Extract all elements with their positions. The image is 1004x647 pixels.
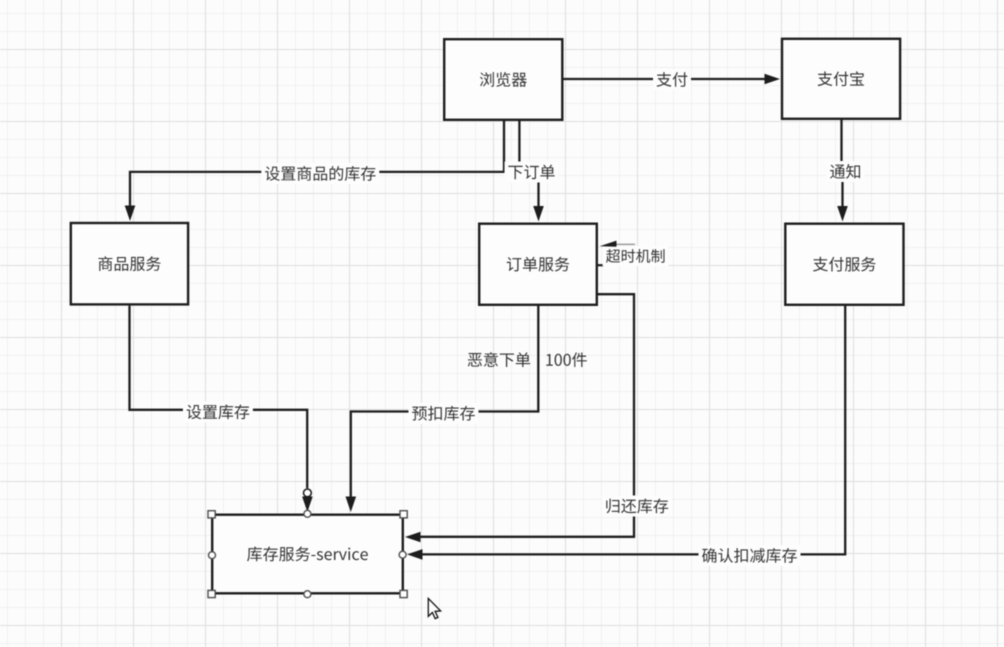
box 商品服务: [71, 223, 188, 304]
wire 下订单: 浏览器→订单服务: [505, 121, 559, 222]
box 支付服务: [785, 224, 903, 305]
wire 设置商品的库存: 浏览器→商品服务: [125, 121, 504, 221]
wire 支付: 浏览器→支付宝: [564, 69, 781, 90]
wire 超时机制 self-loop on 订单服务: [598, 241, 669, 266]
box 库存服务-service (selected): [212, 515, 403, 594]
mouse cursor: [428, 598, 440, 618]
wire 确认扣减库存: 支付服务→库存服务: [407, 306, 845, 566]
selection handles of 库存服务 box: [208, 510, 407, 597]
wire 设置库存: 商品服务→库存服务: [130, 306, 313, 512]
box 支付宝: [782, 39, 900, 119]
wire 归还库存: 订单服务→库存服务: [405, 294, 672, 542]
wire 预扣库存: 订单服务→库存服务: [346, 306, 539, 512]
box 订单服务: [479, 224, 597, 305]
label 恶意下单 100件: [468, 352, 587, 367]
box 浏览器: [444, 39, 562, 120]
wire 通知: 支付宝→支付服务: [827, 120, 865, 222]
